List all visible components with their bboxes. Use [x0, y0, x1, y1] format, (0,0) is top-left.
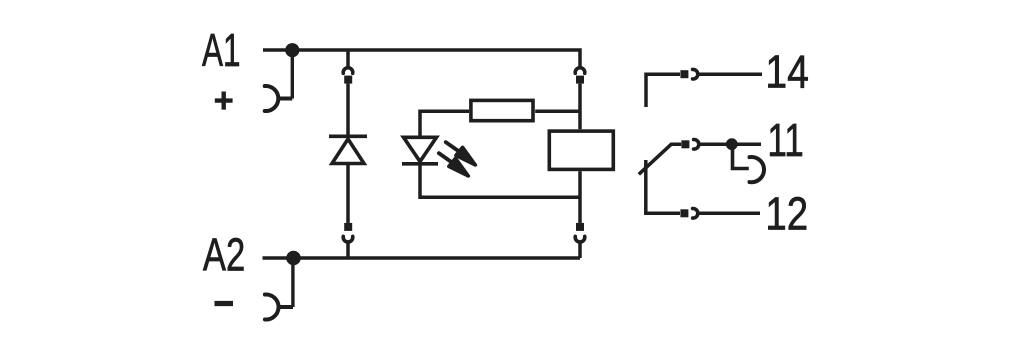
- svg-text:12: 12: [765, 188, 808, 239]
- svg-text:11: 11: [767, 115, 803, 167]
- svg-text:14: 14: [765, 46, 809, 98]
- svg-text:A2: A2: [203, 229, 245, 281]
- svg-text:A1: A1: [202, 25, 241, 76]
